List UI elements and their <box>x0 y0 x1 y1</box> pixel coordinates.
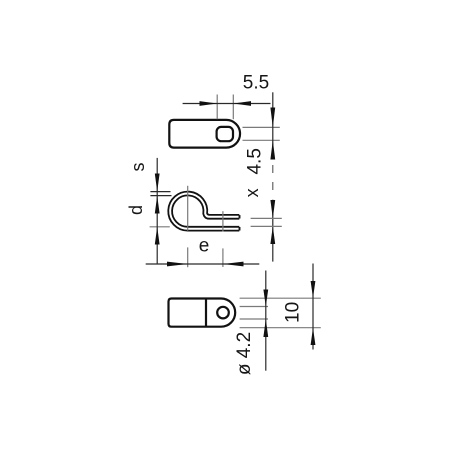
bend divider line <box>205 299 207 327</box>
hole o4.2 <box>217 307 229 319</box>
loop centre line <box>187 186 189 231</box>
svg-text:4.5: 4.5 <box>245 148 266 174</box>
arrow e right <box>223 262 243 267</box>
e extension right <box>222 248 224 267</box>
svg-text:s: s <box>128 163 148 172</box>
extension line slot left <box>216 95 218 120</box>
dimension line o4.2 vertical <box>265 271 267 371</box>
dimension line 4.5 / x vertical <box>272 92 274 159</box>
arrow 5.5 right <box>233 101 251 106</box>
dimension line 10 vertical <box>312 264 314 350</box>
arrow o4.2 top <box>263 290 268 307</box>
arrow 4.5 top <box>270 108 275 128</box>
svg-text:x: x <box>242 188 262 197</box>
profile band (centerline stroked) <box>170 194 239 229</box>
extension line hole bottom (4.5) <box>243 139 280 141</box>
arrow e left <box>167 262 188 267</box>
svg-text:e: e <box>199 236 210 257</box>
extension line slot right <box>232 95 234 120</box>
top view slot 5.5x4.5 <box>217 127 233 141</box>
arrow 5.5 left <box>200 101 218 106</box>
extension line body top (10) <box>240 297 321 299</box>
extension line hole top (o4.2) <box>240 306 268 308</box>
e extension left <box>187 247 189 267</box>
extension line x top <box>251 217 282 219</box>
svg-text:10: 10 <box>283 302 304 323</box>
svg-text:d: d <box>126 205 146 215</box>
extension line body bottom (10) <box>240 327 321 329</box>
arrow o4.2 bottom <box>263 319 268 337</box>
arrow 4.5 bottom <box>270 140 275 159</box>
upper tab end cap <box>239 215 241 218</box>
bottom view body outline <box>169 299 236 327</box>
lower tab end cap <box>239 227 241 231</box>
dimension line s/d vertical <box>156 158 158 264</box>
arrow s bottom <box>155 196 160 214</box>
arrow s top <box>155 174 160 192</box>
dimension line e <box>146 263 260 265</box>
extension line x bottom <box>251 225 282 227</box>
dimension line 5.5 <box>183 103 271 105</box>
extension line s bottom <box>150 195 171 197</box>
arrow x bottom <box>270 226 275 244</box>
top view body outline <box>169 120 240 148</box>
arrow 10 top <box>311 281 316 298</box>
extension line hole bottom (o4.2) <box>240 318 268 320</box>
extension line s top <box>150 191 170 193</box>
extension line d bottom <box>150 226 170 228</box>
arrow x top <box>270 200 275 218</box>
svg-text:ø 4.2: ø 4.2 <box>234 332 255 375</box>
svg-text:5.5: 5.5 <box>243 73 269 94</box>
tab hole centre line <box>222 211 224 231</box>
extension line hole top (4.5) <box>243 126 280 128</box>
arrow d bottom <box>155 227 160 245</box>
arrow 10 bottom <box>311 328 316 345</box>
